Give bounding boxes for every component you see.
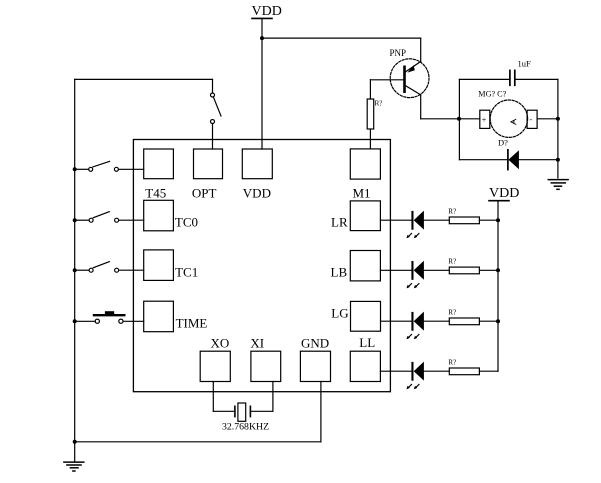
svg-text:LB: LB — [331, 265, 348, 280]
svg-text:-: - — [530, 115, 533, 124]
LED D2 (LR) — [406, 211, 424, 239]
svg-text:LG: LG — [331, 305, 348, 320]
wire motor loop top-left — [459, 78, 509, 80]
LED D4 (LG) — [406, 312, 424, 340]
svg-text:R?: R? — [448, 207, 456, 215]
svg-text:D?: D? — [498, 138, 508, 148]
node bottom rail junction — [73, 440, 77, 444]
pin box TC1 — [144, 250, 174, 281]
svg-text:+: + — [482, 116, 487, 125]
transistor Q1 PNP — [390, 38, 429, 119]
pin box GND — [300, 351, 330, 381]
svg-text:VDD: VDD — [243, 185, 271, 200]
node diode right junction — [556, 158, 560, 162]
ground left — [64, 462, 84, 471]
pin box M1 — [350, 149, 380, 179]
motor rotated A mark — [511, 119, 516, 124]
motor MG? C? — [459, 100, 558, 137]
svg-text:XI: XI — [250, 336, 264, 351]
svg-text:XO: XO — [211, 336, 230, 351]
switch S3 (TC0) — [73, 212, 144, 223]
resistor R2 (base) — [367, 99, 374, 129]
pin box VDD — [242, 149, 272, 179]
svg-text:VDD: VDD — [252, 4, 282, 19]
IC U1 body — [133, 140, 390, 392]
node LG-rail junction — [496, 319, 500, 323]
node LR-rail junction — [496, 218, 500, 222]
switch S4 (TC1) — [73, 262, 144, 273]
wire GND stub — [320, 382, 322, 442]
pin box T45 — [144, 149, 174, 179]
svg-text:VDD: VDD — [489, 186, 519, 201]
wire XO stub — [212, 382, 214, 412]
LED D3 (LB) — [406, 261, 424, 289]
resistor R4 (LB) — [449, 267, 479, 274]
pin box LG — [351, 301, 381, 331]
svg-text:R?: R? — [375, 100, 383, 108]
wire left rail — [74, 79, 76, 462]
pin box XO — [200, 351, 230, 381]
wire base — [370, 79, 403, 81]
node VDD branch junction — [260, 36, 264, 40]
node motor right junction — [556, 117, 560, 121]
svg-text:T45: T45 — [145, 185, 166, 200]
svg-text:OPT: OPT — [192, 185, 217, 200]
wire LL row — [380, 370, 498, 372]
svg-text:M1: M1 — [353, 185, 371, 200]
svg-text:R?: R? — [448, 308, 456, 316]
wire LB row — [380, 269, 498, 271]
wire collector to motor — [421, 118, 460, 120]
wire motor loop right — [557, 79, 559, 177]
wire diode row — [459, 159, 507, 161]
svg-text:GND: GND — [301, 336, 329, 351]
svg-text:LR: LR — [331, 215, 348, 230]
switch S1 (OPT, vertical) — [211, 79, 222, 149]
pin box LR — [350, 201, 380, 231]
pin box LB — [350, 251, 380, 281]
power VDD right symbol — [489, 201, 509, 372]
node motor left junction — [457, 117, 461, 121]
LED D5 (LL) — [406, 362, 424, 390]
wire VDD to emitter — [262, 37, 421, 39]
svg-text:R?: R? — [448, 358, 456, 366]
svg-text:TC0: TC0 — [175, 214, 198, 229]
pin box TIME — [144, 301, 174, 332]
wire top-left horizontal — [75, 78, 213, 80]
pin box OPT — [194, 149, 223, 179]
capacitor C1 1uF — [510, 70, 515, 85]
pushbutton S5 (TIME) — [73, 311, 144, 323]
svg-text:TC1: TC1 — [175, 264, 198, 279]
svg-text:TIME: TIME — [176, 316, 208, 331]
power VDD top symbol — [252, 18, 272, 149]
svg-text:PNP: PNP — [390, 48, 407, 58]
node LB-rail junction — [496, 268, 500, 272]
crystal Y1 — [235, 403, 251, 421]
svg-text:1uF: 1uF — [518, 59, 532, 69]
pin box TC0 — [144, 200, 174, 231]
switch S2 (T45) — [73, 161, 144, 171]
svg-text:R?: R? — [448, 257, 456, 265]
resistor R3 (LR) — [449, 217, 479, 224]
resistor R6 (LL) — [449, 368, 479, 375]
wire XI stub — [250, 410, 273, 412]
wire motor loop left — [458, 79, 460, 159]
wire resistor to M1 — [369, 129, 371, 149]
pin box LL — [350, 351, 380, 381]
diode D1 — [508, 150, 519, 170]
wire LG row — [381, 320, 499, 322]
wire bottom rail — [75, 441, 321, 443]
ground right — [548, 180, 568, 190]
pin box XI — [251, 351, 281, 381]
svg-text:32.768KHZ: 32.768KHZ — [222, 422, 269, 433]
wire LR row — [380, 219, 498, 221]
wire motor loop top-right — [515, 78, 558, 80]
resistor R5 (LG) — [449, 318, 479, 325]
svg-text:MG? C?: MG? C? — [478, 90, 506, 99]
svg-text:LL: LL — [359, 335, 375, 350]
